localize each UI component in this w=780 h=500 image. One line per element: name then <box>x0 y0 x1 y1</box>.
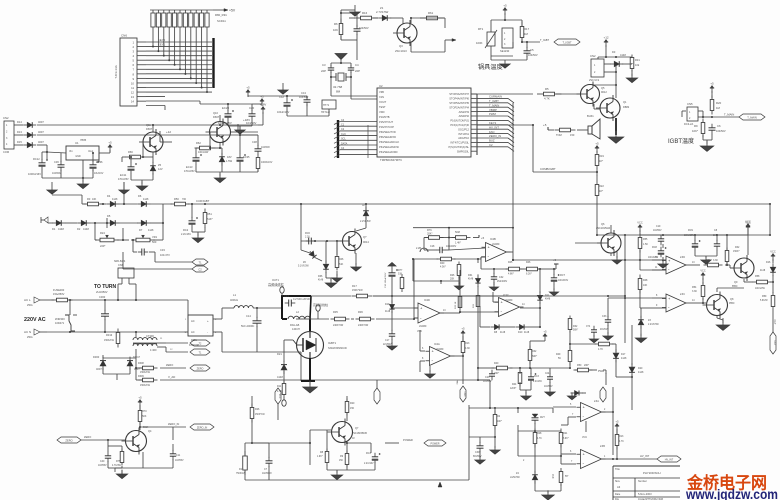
label PWM net <box>598 370 606 385</box>
svg-text:ic3B: ic3B <box>600 445 605 448</box>
svg-text:D882: D882 <box>623 105 630 109</box>
tag BBB left <box>0 0 1 1</box>
svg-text:51K*: 51K* <box>207 217 213 221</box>
svg-text:R66: R66 <box>128 150 133 154</box>
svg-text:8M: 8M <box>336 90 341 94</box>
svg-text:VBMP: VBMP <box>489 108 497 112</box>
svg-text:RC12: RC12 <box>33 157 40 161</box>
svg-text:P60/SEG/TXD: P60/SEG/TXD <box>379 130 396 134</box>
svg-text:Date: Date <box>615 493 621 496</box>
svg-text:Vin: Vin <box>69 149 73 153</box>
opamp ic3B <box>577 445 606 469</box>
svg-text:32.768: 32.768 <box>333 85 343 89</box>
svg-text:TMP86C847M?N: TMP86C847M?N <box>380 158 402 162</box>
svg-text:14: 14 <box>131 100 135 104</box>
svg-text:P15(A)TC1(P)I0: P15(A)TC1(P)I0 <box>450 123 469 127</box>
ground zero cross <box>116 468 127 479</box>
svg-text:C17: C17 <box>385 339 390 342</box>
svg-text:LG50.5W: LG50.5W <box>510 477 521 479</box>
resistor R46 <box>335 254 344 271</box>
resistor R32b 150K <box>725 246 740 265</box>
svg-text:470U/25V: 470U/25V <box>118 178 129 181</box>
svg-text:R33 1K: R33 1K <box>455 301 457 309</box>
svg-text:C32: C32 <box>499 276 504 279</box>
svg-text:CN6: CN6 <box>121 34 127 38</box>
svg-text:W2?: W2? <box>540 417 545 419</box>
svg-text:150: 150 <box>350 407 355 410</box>
VCC D16 <box>770 250 776 264</box>
ground pot temp <box>491 60 527 68</box>
wire long top rail 205 <box>163 203 770 205</box>
capacitor C13 104/50V <box>299 91 311 106</box>
svg-text:8550: 8550 <box>732 285 738 288</box>
tag T1 <box>192 259 208 265</box>
svg-text:4148: 4148 <box>277 375 283 379</box>
svg-text:SNGP20N60UD: SNGP20N60UD <box>328 346 347 350</box>
transistor Q5 9012 <box>577 82 608 107</box>
resistor R37 vertical left <box>398 269 404 292</box>
svg-text:AC N: AC N <box>24 330 31 334</box>
resistor R46 6.2K <box>524 261 541 276</box>
svg-text:9012: 9012 <box>601 90 607 94</box>
zener Z4 LG50.5W <box>510 471 538 484</box>
tag FAN vertical <box>456 371 466 402</box>
capacitor C20 104/50V <box>246 106 257 125</box>
opamp IC2C LM339 <box>495 293 526 317</box>
svg-text:50K: 50K <box>142 415 147 418</box>
wire rows 13 14 <box>146 101 200 110</box>
ground R51 <box>192 234 203 243</box>
svg-text:D1: D1 <box>52 227 56 231</box>
svg-text:4.7K: 4.7K <box>598 348 603 351</box>
svg-text:20K*: 20K* <box>427 233 432 236</box>
svg-text:EC13: EC13 <box>186 165 193 169</box>
svg-text:10K*: 10K* <box>692 129 699 133</box>
Q9 wiring <box>725 235 753 282</box>
svg-text:+12: +12 <box>603 36 608 40</box>
ground R31 <box>626 70 637 83</box>
svg-text:+5: +5 <box>710 82 714 86</box>
svg-text:R16: R16 <box>362 11 368 15</box>
svg-text:R48: R48 <box>643 279 648 282</box>
bridge DB1 KS2008 <box>185 315 217 347</box>
svg-text:0.27UF1.2KVDC: 0.27UF1.2KVDC <box>293 298 312 301</box>
wire 235 rail right <box>597 234 770 236</box>
wire rail 228 <box>413 227 514 229</box>
ic3B wiring <box>561 451 657 464</box>
svg-text:P(S)OUT/P(A)/SL: P(S)OUT/P(A)/SL <box>449 145 470 149</box>
svg-text:150K*: 150K* <box>733 250 740 253</box>
svg-text:BUZ: BUZ <box>489 139 495 143</box>
resistor R20 1M <box>710 96 721 115</box>
zener Z5 12V <box>150 162 163 175</box>
thick wire igbt emitter <box>301 358 315 381</box>
capacitor C7 104/50V <box>354 25 369 35</box>
svg-text:2SC1815GR: 2SC1815GR <box>596 227 610 230</box>
capacitor RC2 2.2U/16V <box>181 217 198 236</box>
svg-text:10K: 10K <box>333 28 338 32</box>
svg-text:D20: D20 <box>638 367 643 370</box>
Q3 wiring <box>340 8 456 52</box>
svg-text:R58: R58 <box>755 275 760 278</box>
ground Q11 <box>136 182 147 191</box>
svg-text:2.2V/0.5W: 2.2V/0.5W <box>648 324 660 326</box>
resistor R26 150K 1W <box>250 404 265 423</box>
wire R26 <box>251 380 253 443</box>
label RS0_R91 SCD11 <box>215 13 227 23</box>
svg-text:-: - <box>207 330 208 334</box>
long vertical 478 <box>477 306 479 327</box>
svg-text:INT4/TC1/P(S)L: INT4/TC1/P(S)L <box>450 141 469 145</box>
label TO TURN <box>94 284 117 290</box>
svg-text:R50: R50 <box>577 364 582 367</box>
svg-text:150K/1W: 150K/1W <box>140 384 151 387</box>
svg-text:VCC: VCC <box>582 436 587 439</box>
svg-text:VCC: VCC <box>637 221 643 225</box>
svg-text:+5: +5 <box>503 4 507 8</box>
svg-text:FAN: FAN <box>489 130 494 134</box>
svg-text:OSC/P12: OSC/P12 <box>458 127 470 131</box>
wire igbt G loop <box>597 224 625 226</box>
svg-text:Q5: Q5 <box>601 86 605 90</box>
connector arrow left <box>41 217 48 223</box>
capacitor C33 100-37V <box>138 248 170 257</box>
svg-text:681/50V: 681/50V <box>473 456 482 458</box>
svg-text:R36: R36 <box>358 310 363 314</box>
wire 259 rail <box>512 259 625 261</box>
svg-text:HV_INT: HV_INT <box>640 454 650 458</box>
bus entries diag <box>408 367 478 369</box>
IC U1 7805 <box>66 138 99 160</box>
svg-text:2.2B: 2.2B <box>416 247 421 250</box>
resistor R58 100 1/2W <box>753 275 772 290</box>
svg-text:POWER: POWER <box>403 438 413 442</box>
svg-text:RC9: RC9 <box>688 229 693 232</box>
resistor R53 3.3K <box>704 259 723 267</box>
capacitor C14 5UF-400DC <box>241 314 262 328</box>
svg-text:CURMAIN: CURMAIN <box>489 95 502 99</box>
Q4b wiring <box>107 422 186 462</box>
+5 R13b <box>615 420 619 461</box>
wire L1 to C14 node <box>253 307 282 352</box>
svg-text:51K: 51K <box>398 273 403 276</box>
ic3D output wiring <box>690 262 700 265</box>
svg-text:ZERO: ZERO <box>197 367 204 370</box>
resistor R19 1K <box>595 152 604 169</box>
fuse FUSE300 15A/250V <box>52 288 73 302</box>
svg-text:EC11: EC11 <box>120 173 127 177</box>
svg-text:+5: +5 <box>138 396 142 400</box>
resistor R31 10K <box>630 55 640 72</box>
svg-text:LM339: LM339 <box>419 325 427 328</box>
svg-text:R46: R46 <box>526 261 531 264</box>
svg-text:R50: R50 <box>174 197 179 201</box>
svg-text:R80_R91: R80_R91 <box>215 13 227 17</box>
connector CN6 TJC3-13A <box>114 34 146 107</box>
svg-text:IGBT1: IGBT1 <box>328 341 337 345</box>
svg-text:C22: C22 <box>545 373 550 375</box>
capacitor C13 high voltage <box>284 294 312 307</box>
wire 296 right rail <box>373 295 626 298</box>
ground keyboard caps <box>228 120 252 134</box>
resistor R77 1.4K <box>452 231 471 245</box>
opamp ic3D <box>662 256 690 274</box>
svg-text:4007: 4007 <box>38 120 44 124</box>
zener Z1 2.7V0.5W <box>376 6 391 21</box>
diode D20 4148 <box>629 363 644 376</box>
bottom mid ground wiring <box>327 430 375 473</box>
wire +18 top rail drop <box>153 124 221 126</box>
svg-text:C6: C6 <box>717 124 721 128</box>
svg-text:P16(A)TC4(P)I1: P16(A)TC4(P)I1 <box>450 119 469 123</box>
svg-text:ZERO_IN: ZERO_IN <box>489 134 501 138</box>
resistor R36 240K 2W <box>356 310 375 327</box>
svg-text:D11: D11 <box>545 294 550 297</box>
svg-text:R45: R45 <box>508 261 513 264</box>
svg-text:+5: +5 <box>481 236 485 240</box>
resistor R309 150K/1W <box>138 375 158 387</box>
svg-text:1000U16V: 1000U16V <box>261 161 273 164</box>
svg-text:1M: 1M <box>716 106 721 110</box>
ic3A wiring <box>553 387 614 455</box>
svg-text:4148: 4148 <box>385 311 391 313</box>
svg-text:STOP5A/INT/PI5: STOP5A/INT/PI5 <box>449 101 469 105</box>
+5 buzzer <box>543 123 554 130</box>
svg-text:2.2U16V: 2.2U16V <box>533 381 542 383</box>
svg-text:D4: D4 <box>107 194 111 198</box>
svg-text:OUT: OUT <box>773 340 776 346</box>
row 269 wiring <box>481 257 555 293</box>
opamp ic3C <box>662 293 690 312</box>
svg-text:R26: R26 <box>255 408 260 411</box>
Z4 R10 ground <box>535 481 561 500</box>
ground 7805 <box>77 178 88 189</box>
svg-text:D17: D17 <box>621 353 626 356</box>
resistor R16 top <box>354 11 378 20</box>
svg-text:150K*1W: 150K*1W <box>255 414 266 416</box>
svg-text:TEST: TEST <box>379 105 386 109</box>
wire +12 rail <box>598 56 632 58</box>
diode D8 4148 <box>490 324 505 334</box>
svg-text:+5: +5 <box>543 330 547 334</box>
connector CN7 fan box <box>114 260 134 284</box>
wire R36 right <box>296 259 415 320</box>
svg-text:D13: D13 <box>17 130 22 134</box>
svg-text:18V: 18V <box>227 155 232 159</box>
svg-text:CUR/IGBT: CUR/IGBT <box>196 199 210 203</box>
svg-text:COMB/IGBT: COMB/IGBT <box>540 167 556 171</box>
ground Z3 <box>635 308 646 343</box>
svg-text:SCL: SCL <box>341 138 346 141</box>
svg-text:CN6: CN6 <box>118 263 124 267</box>
terminal OUT1 <box>268 278 285 296</box>
resistor R44 120K <box>510 370 522 391</box>
capacitor RC12 1000U/16V <box>28 157 48 176</box>
vertical tag near ic3A <box>600 387 606 407</box>
svg-text:1000U/16V: 1000U/16V <box>28 172 41 176</box>
svg-text:RC3: RC3 <box>534 375 539 378</box>
svg-text:CN2: CN2 <box>590 54 596 58</box>
svg-text:120K*: 120K* <box>510 388 516 390</box>
svg-text:5-Nov-2003: 5-Nov-2003 <box>638 492 652 496</box>
resistor R33 1K vertical <box>455 297 462 310</box>
pot temp wiring <box>491 19 540 60</box>
svg-text:RC2: RC2 <box>183 228 189 232</box>
comparator mid wiring <box>477 286 479 306</box>
svg-text:IGBT温度: IGBT温度 <box>668 137 694 145</box>
buzzer BUZ1 <box>587 114 600 139</box>
resistor R50 20K <box>574 364 593 372</box>
svg-text:D6: D6 <box>138 194 142 198</box>
svg-text:POWER: POWER <box>430 442 439 445</box>
logo text jinqiao red <box>686 473 767 493</box>
ground top center <box>350 5 360 16</box>
svg-text:VCC: VCC <box>745 220 751 224</box>
Q8 wiring <box>700 298 723 321</box>
svg-text:V3B: V3B <box>379 90 384 94</box>
Z6 D66 wiring <box>301 241 337 281</box>
svg-text:100K: 100K <box>476 41 483 45</box>
svg-text:FAN: FAN <box>456 380 459 385</box>
svg-text:4148: 4148 <box>58 227 64 231</box>
wire cap row <box>200 101 229 105</box>
svg-text:R24: R24 <box>100 231 105 235</box>
resistor R66 <box>126 150 145 159</box>
svg-text:1.5W: 1.5W <box>226 159 233 163</box>
svg-text:20K: 20K <box>450 278 455 281</box>
svg-text:4148: 4148 <box>112 198 118 201</box>
svg-text:D10: D10 <box>518 331 523 334</box>
resistor R2b 10K <box>493 411 502 430</box>
svg-text:RT1: RT1 <box>478 27 484 31</box>
capacitor C11 103/55V <box>170 450 184 462</box>
capacitor C23 101/55V <box>483 370 495 383</box>
svg-text:220V AC: 220V AC <box>24 317 46 323</box>
resistor array R80-R91 <box>150 10 213 30</box>
svg-text:R54: R54 <box>692 286 697 289</box>
wire V_AD right segment <box>477 379 491 409</box>
resistor R70 50K <box>138 407 147 426</box>
capacitor C300 2U/250V <box>96 290 109 320</box>
resistor R62 100 1/2W <box>195 141 216 154</box>
transistor Q3 2SC1013 <box>393 20 417 53</box>
tag T_IGBT <box>540 38 580 45</box>
capacitor C17 221/50V <box>383 330 395 346</box>
resistor R13 4.3K <box>461 338 470 357</box>
svg-text:4148: 4148 <box>318 280 324 282</box>
capacitor C38 104/50V <box>252 140 270 155</box>
svg-text:TOM: TOM <box>556 133 562 137</box>
svg-text:X1N: X1N <box>379 95 384 99</box>
svg-text:PALLAB: PALLAB <box>290 324 300 327</box>
ground IGBT temp <box>700 141 714 152</box>
svg-text:R11: R11 <box>277 385 282 388</box>
svg-text:D15: D15 <box>17 140 22 144</box>
svg-text:103/55V: 103/55V <box>175 460 184 462</box>
svg-text:3.3K: 3.3K <box>692 290 697 293</box>
diode D2 4148 <box>77 220 90 231</box>
svg-text:ZERO_IN: ZERO_IN <box>168 422 179 426</box>
svg-text:50K*: 50K* <box>532 355 537 358</box>
svg-text:OUT: OUT <box>773 319 776 325</box>
crystal X2 32.768 8M <box>333 73 346 94</box>
capacitor C19 104/50V <box>653 225 664 245</box>
capacitor C18 104/400V <box>430 245 457 253</box>
svg-text:15A/250V: 15A/250V <box>53 292 65 296</box>
diode D21 4148 <box>277 352 287 379</box>
svg-text:D5: D5 <box>107 214 111 218</box>
diode D7 4148 <box>137 220 154 232</box>
svg-text:100-37V: 100-37V <box>160 253 170 257</box>
svg-text:C23: C23 <box>485 376 490 379</box>
svg-text:HT71: HT71 <box>323 104 330 107</box>
svg-text:C36: C36 <box>54 160 59 164</box>
capacitor EC36 10U/16V <box>90 160 104 175</box>
MCU right net wires with labels <box>477 95 514 152</box>
svg-text:ZERO: ZERO <box>65 438 72 442</box>
svg-text:R32: R32 <box>735 246 740 249</box>
capacitor C4 22P <box>348 63 360 73</box>
svg-text:100/1/2W: 100/1/2W <box>755 288 766 290</box>
svg-text:AC: AC <box>191 330 195 334</box>
label net names on bus stubs <box>341 119 348 150</box>
svg-text:150K/1W: 150K/1W <box>140 371 151 374</box>
svg-text:+: + <box>207 319 209 323</box>
svg-text:R309: R309 <box>138 375 144 378</box>
svg-text:CT300: CT300 <box>146 334 154 338</box>
svg-text:+5: +5 <box>461 327 465 331</box>
svg-text:9014: 9014 <box>143 426 149 429</box>
opamp IC2D LM339 <box>414 298 444 333</box>
diode D4 4148 <box>106 194 119 207</box>
svg-text:100/1/2W: 100/1/2W <box>198 151 209 154</box>
svg-text:R9: R9 <box>694 124 698 128</box>
svg-text:140UH: 140UH <box>292 328 300 331</box>
svg-text:Size: Size <box>615 480 620 483</box>
VCC Q6 <box>637 221 643 236</box>
svg-text:BUZ1: BUZ1 <box>587 114 594 118</box>
svg-text:R75: R75 <box>116 460 121 463</box>
wire top rail 125 right <box>258 103 513 253</box>
junction arrow bottom <box>438 480 442 487</box>
wire row 259 <box>412 257 485 281</box>
svg-text:ZERO: ZERO <box>166 363 173 367</box>
svg-text:锅具温度: 锅具温度 <box>478 63 503 71</box>
svg-text:104/50V: 104/50V <box>528 53 538 57</box>
resistor R76 20K <box>425 229 444 239</box>
svg-text:EC35: EC35 <box>243 155 250 159</box>
inductor L2 PALLAB 140UH <box>288 310 310 331</box>
wire row368 to R50 <box>540 367 571 369</box>
svg-text:R5: R5 <box>545 87 549 91</box>
svg-text:ic3C: ic3C <box>680 293 685 296</box>
Q8 collector wiring <box>717 282 744 292</box>
electrolytic arc 2.2B <box>416 247 428 252</box>
svg-text:D61: D61 <box>468 274 473 277</box>
svg-text:9014: 9014 <box>363 240 369 244</box>
ground crystal top <box>335 54 347 64</box>
svg-text:103/55V: 103/55V <box>98 465 107 467</box>
resistor R47 4.7K <box>595 342 614 351</box>
resistor R32c 50K <box>568 316 578 333</box>
vertical tag VCC left <box>275 388 281 420</box>
svg-text:4148: 4148 <box>524 332 530 334</box>
svg-text:D66: D66 <box>318 275 323 278</box>
diode D6 4148 <box>137 194 150 207</box>
+18V label <box>231 118 250 132</box>
svg-text:5UF-400DC: 5UF-400DC <box>241 325 255 328</box>
zener Z6 5.1V/0.5W <box>298 250 318 268</box>
